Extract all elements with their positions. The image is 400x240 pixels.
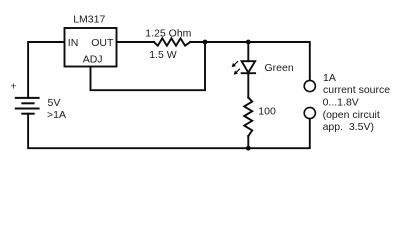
wire: battery plus to IN (top-left rail) xyxy=(28,42,64,98)
svg-text:ADJ: ADJ xyxy=(83,53,103,65)
svg-text:>1A: >1A xyxy=(47,109,66,121)
wire: OUT pin to resistor R1 xyxy=(116,41,154,43)
LED emission arrow 2 xyxy=(234,69,240,75)
svg-text:1.5 W: 1.5 W xyxy=(149,49,177,61)
wire: ADJ feedback (ADJ pin down, right, up to node A) xyxy=(91,42,206,90)
LED emission arrow 1 xyxy=(232,61,238,67)
svg-text:OUT: OUT xyxy=(91,37,114,49)
svg-text:5V: 5V xyxy=(48,97,61,109)
resistor R1 (1.25 Ohm) zigzag xyxy=(154,38,190,45)
svg-text:current source: current source xyxy=(323,84,390,96)
wire: node B down to LED D1 xyxy=(247,42,249,61)
svg-text:+: + xyxy=(11,80,17,92)
svg-text:1.25 Ohm: 1.25 Ohm xyxy=(145,28,191,40)
wire: R1 to node A xyxy=(190,41,205,43)
svg-text:1A: 1A xyxy=(323,72,336,84)
LED D1 cathode bar xyxy=(242,72,256,74)
svg-text:0...1.8V: 0...1.8V xyxy=(323,96,359,108)
terminal J2 (lower output circle) xyxy=(304,107,315,118)
wire: LED to resistor R2 xyxy=(247,73,249,97)
node B junction dot xyxy=(246,40,251,45)
node A junction dot xyxy=(203,40,208,45)
svg-text:Green: Green xyxy=(265,62,294,74)
wire: node A to node B to right terminal xyxy=(205,42,310,80)
resistor R2 (100) vertical zigzag xyxy=(244,98,252,136)
svg-text:100: 100 xyxy=(258,106,276,118)
svg-text:app. 3.5V): app. 3.5V) xyxy=(323,121,374,133)
LED D1 triangle (anode) xyxy=(242,61,256,72)
wire: R2 to bottom rail node C xyxy=(247,136,249,148)
terminal J1 (upper output circle) xyxy=(304,80,315,91)
svg-text:LM317: LM317 xyxy=(73,14,105,26)
svg-text:IN: IN xyxy=(68,37,79,49)
wire: bottom rail xyxy=(28,114,310,149)
regulator U1 LM317 body xyxy=(65,28,117,67)
battery BT1 plates xyxy=(15,98,40,114)
node C junction dot xyxy=(246,146,251,151)
svg-text:(open circuit: (open circuit xyxy=(323,109,380,121)
